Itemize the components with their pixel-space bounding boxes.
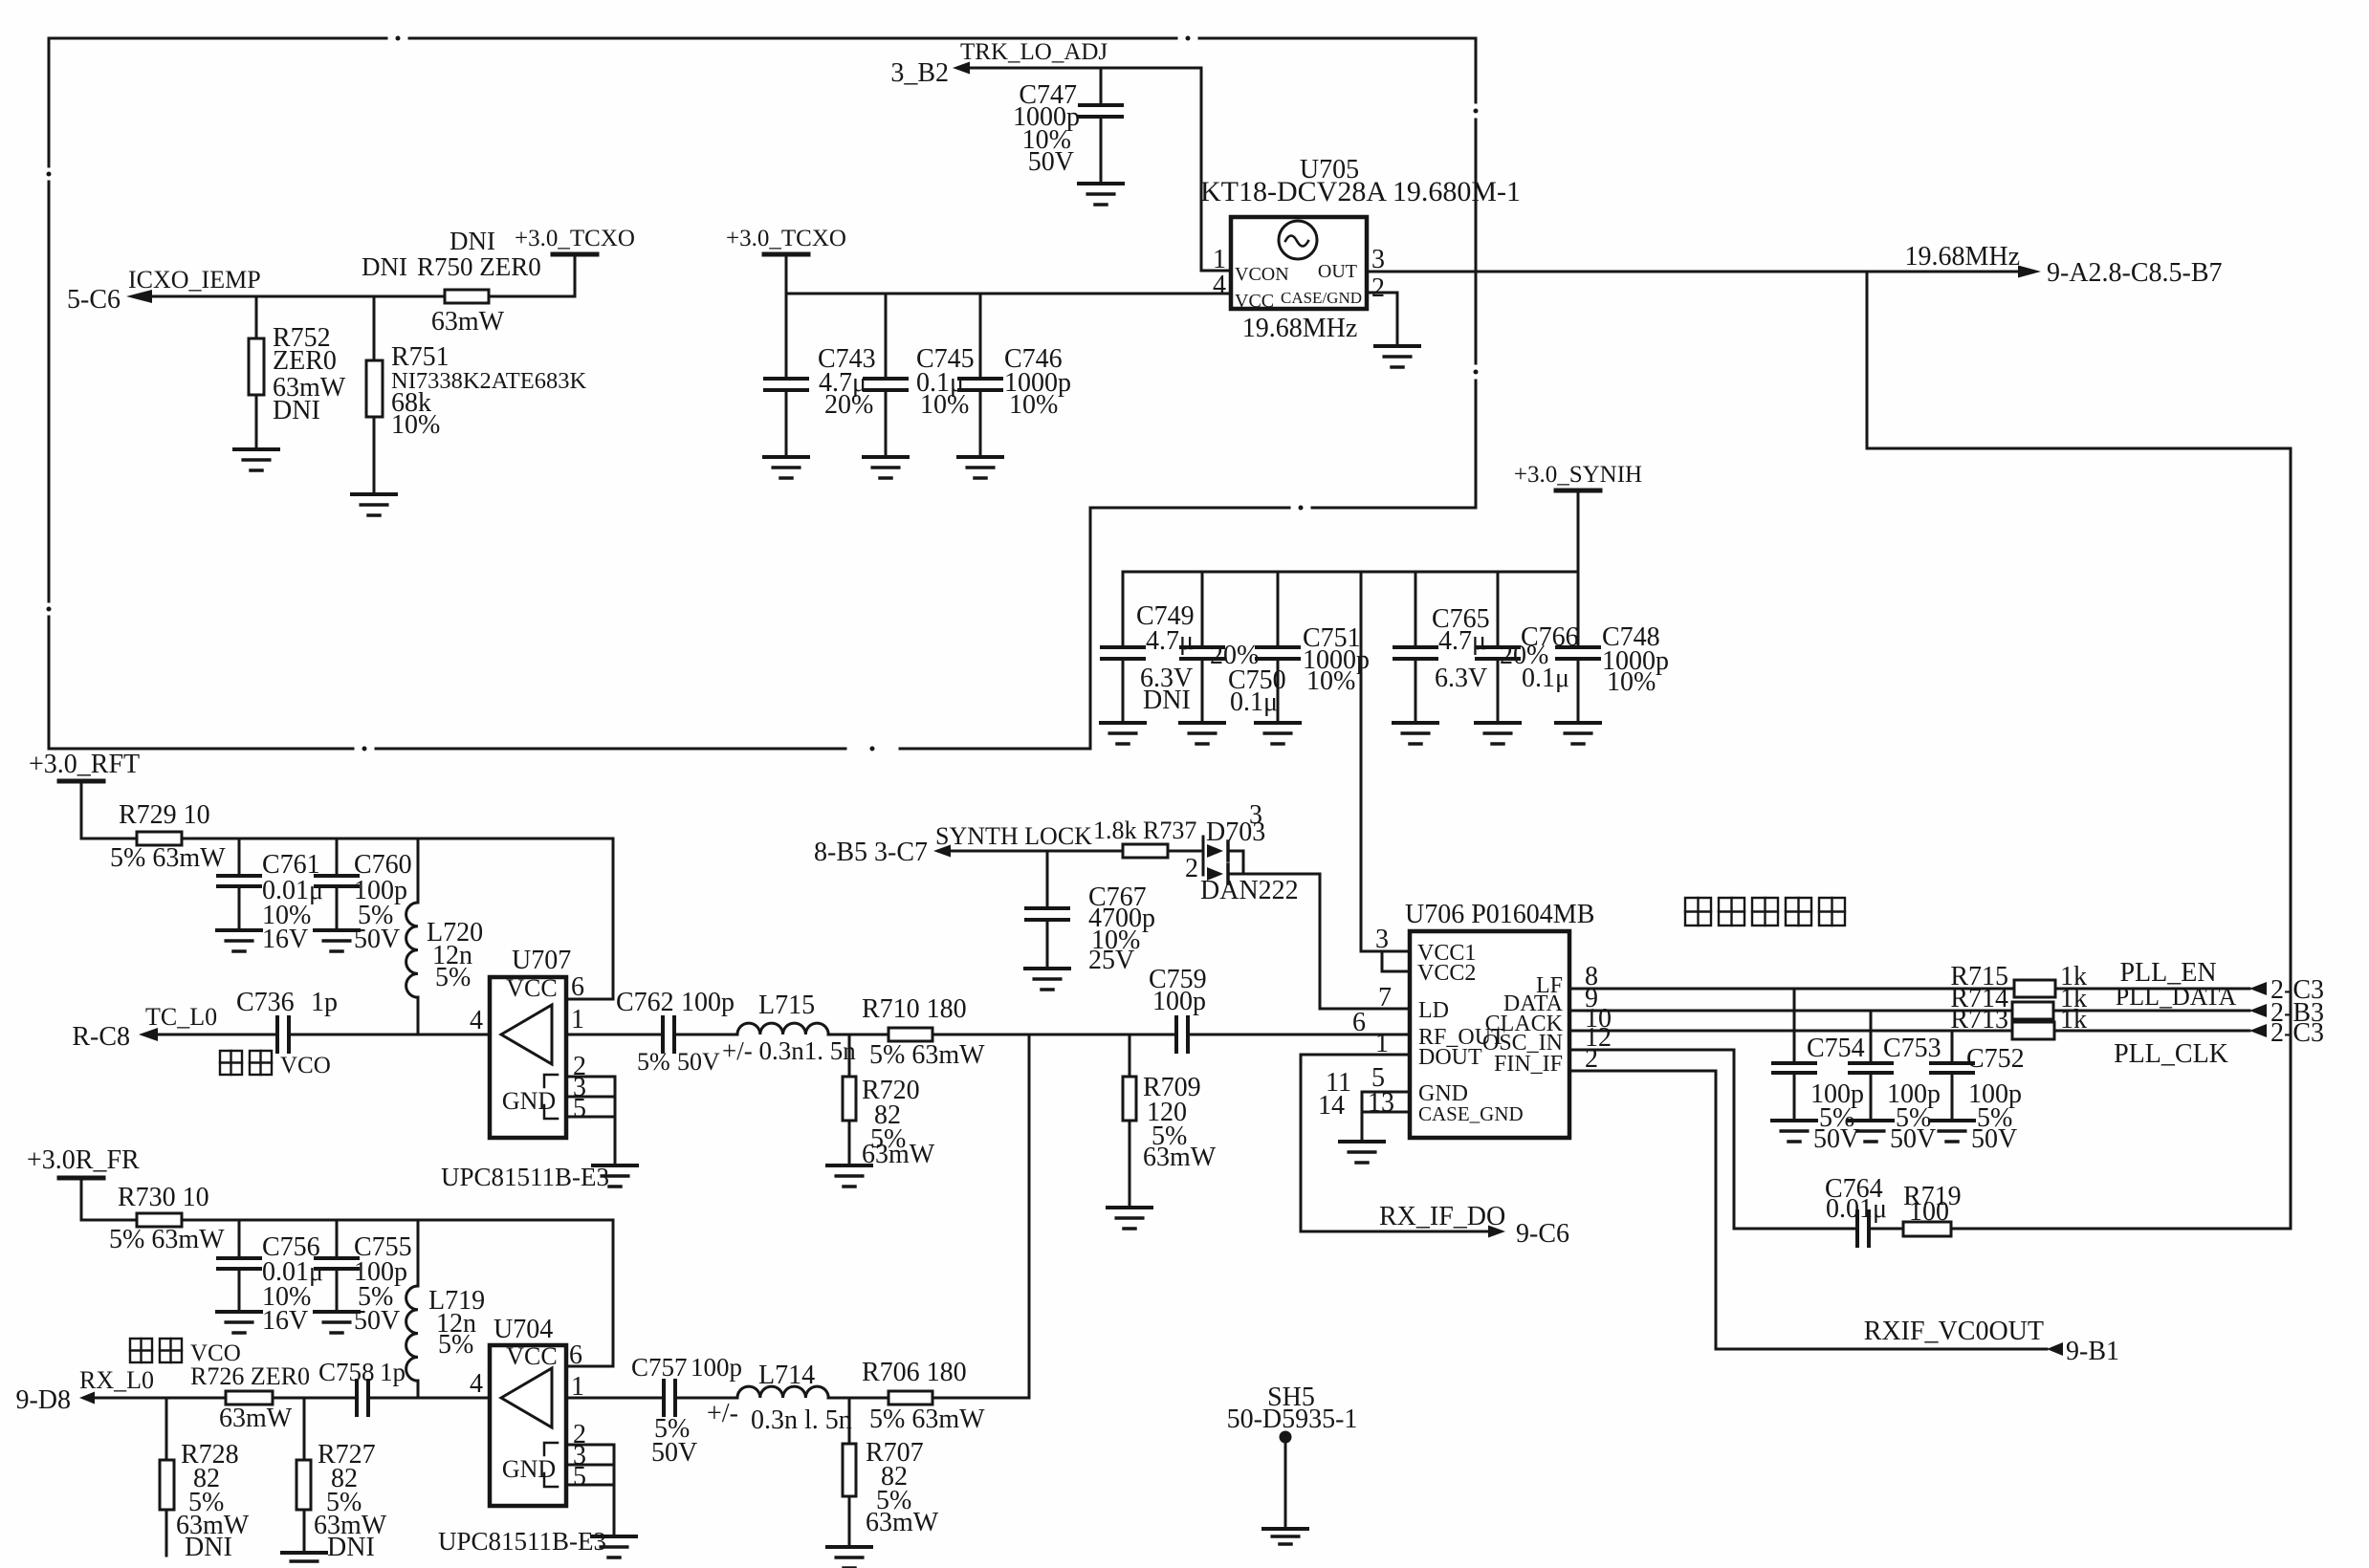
svg-text:C736: C736 xyxy=(236,988,295,1017)
wire DATA/PLL_DATA xyxy=(1569,1010,2249,1013)
label RX VCO (Chinese) xyxy=(130,1339,241,1366)
pin 5 (U706 GND) xyxy=(1326,1063,1410,1098)
capacitor C755 xyxy=(316,1220,412,1336)
svg-text:+3.0_TCXO: +3.0_TCXO xyxy=(515,226,635,251)
svg-text:GND: GND xyxy=(502,1455,556,1483)
label PLL_CLK xyxy=(2114,1039,2228,1069)
pin 2 (U704) xyxy=(566,1420,614,1449)
svg-text:R729 10: R729 10 xyxy=(119,800,210,830)
svg-text:0.3n l. 5n: 0.3n l. 5n xyxy=(751,1405,852,1435)
capacitor C747 xyxy=(1013,68,1122,184)
svg-text:C752: C752 xyxy=(1966,1044,2025,1074)
pin 2 (U707) xyxy=(566,1052,615,1081)
pin 4 (U704) xyxy=(470,1369,483,1399)
wire 19.68MHz output xyxy=(1367,266,2291,1230)
label ICXO_IEMP xyxy=(128,266,261,294)
pin 2 (U705 CASE/GND) xyxy=(1367,273,1397,346)
inductor L719 xyxy=(406,1220,486,1398)
pin 4 (U705 VCC) xyxy=(1213,271,1226,300)
resistor R714 xyxy=(1950,984,2087,1019)
resistor R750 xyxy=(362,227,541,337)
svg-text:2: 2 xyxy=(1371,273,1385,303)
svg-text:63mW: 63mW xyxy=(1143,1143,1217,1172)
svg-text:63mW: 63mW xyxy=(431,307,505,337)
resistor R730 xyxy=(109,1183,225,1254)
ground (R752) xyxy=(234,449,278,470)
svg-text:50V: 50V xyxy=(1813,1124,1859,1154)
label RX_L0 xyxy=(79,1366,154,1394)
capacitor C751 xyxy=(1257,572,1370,723)
svg-text:VCO: VCO xyxy=(280,1053,331,1078)
svg-text:5%: 5% xyxy=(438,1330,473,1360)
svg-text:10%: 10% xyxy=(391,410,440,440)
capacitor C767 xyxy=(1026,851,1155,975)
pin 2 (U706 FIN_IF) xyxy=(1585,1044,1598,1074)
svg-text:50-D5935-1: 50-D5935-1 xyxy=(1227,1405,1358,1434)
svg-text:DNI: DNI xyxy=(185,1533,232,1562)
wire CLACK/PLL_CLK xyxy=(1569,1030,2249,1033)
svg-text:5%: 5% xyxy=(435,963,471,992)
svg-text:R726 ZER0: R726 ZER0 xyxy=(190,1362,310,1390)
svg-text:CASE_GND: CASE_GND xyxy=(1418,1102,1524,1125)
label PLL_EN xyxy=(2119,958,2216,988)
pin 8 (U706 LF) xyxy=(1585,962,1598,991)
svg-text:RXIF_VC0OUT: RXIF_VC0OUT xyxy=(1864,1317,2044,1346)
svg-text:10%: 10% xyxy=(1306,666,1355,696)
svg-text:DNI: DNI xyxy=(1143,686,1191,715)
wire VCC feed to U706 pin3 xyxy=(1360,572,1363,951)
svg-text:3: 3 xyxy=(1371,245,1385,274)
label 5-C6 xyxy=(67,285,121,315)
label TC_L0 xyxy=(145,1003,217,1031)
svg-text:UPC81511B-E3: UPC81511B-E3 xyxy=(441,1163,609,1191)
svg-text:DOUT: DOUT xyxy=(1418,1045,1482,1070)
svg-text:DNI: DNI xyxy=(362,252,407,281)
svg-text:1k: 1k xyxy=(2060,1005,2087,1034)
svg-text:C753: C753 xyxy=(1883,1034,1941,1063)
ground (C755) xyxy=(315,1312,359,1333)
svg-text:DNI: DNI xyxy=(327,1533,375,1562)
resistor R715 xyxy=(1950,962,2087,997)
svg-text:R710 180: R710 180 xyxy=(862,994,967,1024)
wire SYNTH_LOCK xyxy=(933,845,1203,858)
svg-text:VCC: VCC xyxy=(1235,291,1274,312)
svg-text:100p: 100p xyxy=(1152,987,1206,1016)
svg-text:5: 5 xyxy=(573,1462,586,1492)
svg-text:9-C6: 9-C6 xyxy=(1516,1219,1569,1249)
svg-text:100p: 100p xyxy=(691,1353,742,1382)
svg-text:10%: 10% xyxy=(1009,390,1058,420)
svg-text:1p: 1p xyxy=(311,988,338,1017)
capacitor C757 xyxy=(631,1353,742,1468)
label TRK_LO_ADJ xyxy=(960,39,1108,65)
svg-text:10%: 10% xyxy=(1607,667,1656,697)
capacitor C766 xyxy=(1477,572,1579,723)
svg-text:19.68MHz: 19.68MHz xyxy=(1242,314,1358,343)
svg-text:TRK_LO_ADJ: TRK_LO_ADJ xyxy=(960,39,1108,65)
svg-text:1: 1 xyxy=(571,1372,584,1402)
svg-text:50V: 50V xyxy=(354,925,400,954)
svg-text:4: 4 xyxy=(470,1369,483,1399)
resistor R737 xyxy=(1093,817,1196,858)
pin 3 (U707) xyxy=(566,1073,615,1102)
svg-text:VCC: VCC xyxy=(506,1342,557,1370)
svg-text:C757: C757 xyxy=(631,1353,688,1382)
ground (C743) xyxy=(764,457,808,478)
svg-text:3_B2: 3_B2 xyxy=(890,58,949,88)
pin 6 (U704) xyxy=(566,1340,613,1370)
pin 9 (U706 DATA) xyxy=(1585,984,1598,1013)
inductor L714 xyxy=(707,1361,852,1435)
wire RX rail xyxy=(828,1397,1029,1400)
inductor L715 xyxy=(722,991,856,1065)
svg-text:RX_IF_DO: RX_IF_DO xyxy=(1379,1202,1505,1231)
svg-text:10%: 10% xyxy=(920,390,969,420)
label 19.68MHz xyxy=(1904,242,2020,272)
resistor R728 xyxy=(160,1398,250,1562)
svg-text:ZER0: ZER0 xyxy=(273,346,337,376)
wire TX-RX tie xyxy=(1028,1034,1031,1398)
svg-text:+/-: +/- xyxy=(707,1399,738,1428)
op-amp U707 xyxy=(441,946,609,1191)
pin 12 (U706 OSC_IN) xyxy=(1585,1023,1612,1053)
svg-text:63mW: 63mW xyxy=(219,1404,293,1433)
node SH5 xyxy=(1227,1383,1358,1529)
capacitor C756 xyxy=(218,1220,323,1336)
ground (C750) xyxy=(1180,723,1224,744)
ground (R751) xyxy=(352,494,396,515)
ground (U707) xyxy=(593,1165,637,1187)
svg-text:100p: 100p xyxy=(681,988,735,1017)
inductor L720 xyxy=(406,838,484,1034)
label 3_B2 xyxy=(890,58,949,88)
power +3.0R_FR xyxy=(27,1145,140,1220)
svg-text:OUT: OUT xyxy=(1318,261,1357,282)
svg-text:R706 180: R706 180 xyxy=(862,1358,967,1387)
label RX_IF_DO xyxy=(1379,1202,1505,1231)
wire U707 gnd bus xyxy=(614,1077,617,1165)
svg-text:5% 63mW: 5% 63mW xyxy=(869,1405,985,1434)
label 9-A2.8-C8.5-B7 xyxy=(2047,258,2223,288)
svg-text:13: 13 xyxy=(1368,1088,1394,1118)
node ICXO_IEMP wire to 5-C6 xyxy=(126,254,575,303)
svg-text:5-C6: 5-C6 xyxy=(67,285,121,315)
ground (C752) xyxy=(1930,1121,1974,1142)
wire DOUT to RX_IF_DO xyxy=(1301,1055,1505,1238)
wire FIN_IF to RXIF_VC0OUT xyxy=(1569,1071,2047,1349)
capacitor C761 xyxy=(218,838,323,954)
svg-text:DAN222: DAN222 xyxy=(1200,876,1299,905)
resistor R707 xyxy=(843,1398,939,1547)
label TX VCO (Chinese) xyxy=(220,1051,331,1078)
svg-text:1p: 1p xyxy=(380,1358,406,1386)
ground (C761) xyxy=(217,930,261,951)
svg-text:TC_L0: TC_L0 xyxy=(145,1003,217,1031)
svg-text:50V: 50V xyxy=(354,1306,400,1336)
diode D703 (DAN222) xyxy=(1185,800,1320,905)
svg-text:GND: GND xyxy=(502,1087,556,1115)
ground (C753) xyxy=(1849,1121,1893,1142)
pin 6 (U707) xyxy=(566,972,613,1002)
svg-text:4: 4 xyxy=(1213,271,1226,300)
svg-text:4.7μ: 4.7μ xyxy=(1146,626,1194,656)
wire TX rail xyxy=(828,1034,1410,1036)
pin 3 (U706 VCC1/VCC2) xyxy=(1361,925,1410,971)
svg-text:VCC: VCC xyxy=(506,974,557,1002)
svg-text:9-A2.8-C8.5-B7: 9-A2.8-C8.5-B7 xyxy=(2047,258,2223,288)
label 9-C6 xyxy=(1516,1219,1569,1249)
capacitor C749 xyxy=(1102,572,1259,723)
label SYNTH_LOCK xyxy=(935,822,1092,850)
capacitor C750 xyxy=(1181,572,1286,723)
node PLL_EN to 2-C3 xyxy=(2249,975,2324,1005)
svg-text:19.68MHz: 19.68MHz xyxy=(1904,242,2020,272)
ground (R727) xyxy=(282,1553,326,1568)
capacitor C736 xyxy=(236,988,338,1052)
ground (SH5) xyxy=(1263,1529,1307,1544)
svg-text:1: 1 xyxy=(571,1005,584,1034)
ground (C754) xyxy=(1772,1121,1816,1142)
ground (R709) xyxy=(1108,1208,1152,1229)
svg-text:6: 6 xyxy=(1352,1008,1366,1037)
ground (U705 pin2) xyxy=(1375,346,1419,367)
svg-text:0.1μ: 0.1μ xyxy=(1230,687,1278,717)
svg-text:6: 6 xyxy=(571,972,584,1002)
svg-text:ICXO_IEMP: ICXO_IEMP xyxy=(128,266,261,294)
power +3.0_TCXO (right) xyxy=(726,226,846,294)
wire TC_L0 output xyxy=(139,1028,490,1041)
capacitor C759 xyxy=(1149,965,1207,1052)
svg-text:100: 100 xyxy=(1909,1197,1949,1227)
resistor R710 xyxy=(862,994,985,1070)
capacitor C765 xyxy=(1394,572,1548,723)
capacitor C758 xyxy=(318,1358,406,1415)
label PLL_DATA xyxy=(2116,983,2237,1011)
svg-text:50V: 50V xyxy=(1890,1124,1936,1154)
svg-text:LD: LD xyxy=(1418,998,1449,1023)
capacitor C760 xyxy=(316,838,412,954)
svg-text:16V: 16V xyxy=(262,1306,308,1336)
pin 4 (U707) xyxy=(470,1006,483,1035)
svg-text:5% 63mW: 5% 63mW xyxy=(109,1225,225,1254)
pin 6 (U706 RF_OUT) xyxy=(1352,1008,1366,1037)
ground (C756) xyxy=(217,1312,261,1333)
node PLL_DATA to 2-B3 xyxy=(2249,998,2324,1028)
page region border (dash-dot chain line) xyxy=(47,36,1479,751)
svg-text:2: 2 xyxy=(1185,854,1198,883)
svg-text:1.8k R737: 1.8k R737 xyxy=(1093,817,1196,844)
svg-text:50V: 50V xyxy=(651,1438,697,1468)
svg-text:50V: 50V xyxy=(1971,1124,2017,1154)
pin 10 (U706 CLACK) xyxy=(1585,1004,1612,1034)
svg-text:2: 2 xyxy=(1585,1044,1598,1074)
svg-text:C758: C758 xyxy=(318,1358,375,1386)
svg-text:5% 63mW: 5% 63mW xyxy=(869,1040,985,1070)
svg-text:+3.0_TCXO: +3.0_TCXO xyxy=(726,226,846,251)
wire TCXO rail xyxy=(786,293,1231,295)
svg-text:25V: 25V xyxy=(1088,946,1134,975)
svg-text:6: 6 xyxy=(569,1340,582,1370)
svg-text:50V: 50V xyxy=(1028,147,1074,177)
svg-text:KT18-DCV28A 19.680M-1: KT18-DCV28A 19.680M-1 xyxy=(1200,176,1521,207)
ground (C748) xyxy=(1556,723,1600,744)
resistor R706 xyxy=(862,1358,985,1434)
resistor R709 xyxy=(1123,1034,1217,1208)
svg-text:5%: 5% xyxy=(637,1048,670,1076)
op-amp U706 P01604MB PLL box xyxy=(1405,900,1594,1138)
pin 5 (U707) xyxy=(566,1094,615,1123)
resistor R720 xyxy=(843,1034,935,1169)
pin 13 (U706 CASE_GND) xyxy=(1318,1088,1410,1142)
svg-text:VCC2: VCC2 xyxy=(1417,961,1476,986)
svg-text:C762: C762 xyxy=(616,988,674,1017)
ground (C751) xyxy=(1256,723,1300,744)
pin 5 (U704) xyxy=(566,1462,614,1492)
svg-text:63mW: 63mW xyxy=(866,1508,939,1537)
svg-text:50V: 50V xyxy=(677,1048,720,1076)
resistor R727 xyxy=(296,1398,387,1562)
pin 1 (U707) xyxy=(566,1005,663,1034)
svg-text:CASE/GND: CASE/GND xyxy=(1281,289,1362,307)
svg-text:UPC81511B-E3: UPC81511B-E3 xyxy=(438,1527,606,1556)
wire D703 to U706 LD xyxy=(1320,874,1410,1009)
resistor R719 xyxy=(1903,1182,2291,1236)
power +3.0_RFT xyxy=(29,750,140,838)
label R-C8 xyxy=(72,1022,130,1052)
capacitor C754 xyxy=(1773,989,1865,1154)
svg-text:R713: R713 xyxy=(1950,1005,2008,1034)
svg-text:R730 10: R730 10 xyxy=(118,1183,209,1212)
svg-text:9-B1: 9-B1 xyxy=(2066,1337,2119,1366)
op-amp U704 xyxy=(438,1315,606,1556)
ground (R720) xyxy=(827,1165,871,1187)
capacitor C753 xyxy=(1850,1011,1941,1154)
svg-text:5% 63mW: 5% 63mW xyxy=(110,843,226,873)
label PLL module (Chinese) xyxy=(1685,898,1845,926)
wire LF/PLL_EN xyxy=(1569,988,2249,991)
resistor R726 xyxy=(190,1362,310,1433)
pin 3 (U704) xyxy=(566,1441,614,1470)
svg-text:4.7μ: 4.7μ xyxy=(1438,626,1486,656)
svg-text:5: 5 xyxy=(573,1094,586,1123)
svg-text:C754: C754 xyxy=(1807,1034,1865,1063)
resistor R751 xyxy=(366,296,586,494)
svg-text:+3.0_RFT: +3.0_RFT xyxy=(29,750,140,779)
label 8-B5 3-C7 xyxy=(814,838,928,867)
node PLL_CLK to 2-C3 xyxy=(2249,1018,2324,1048)
ground (C766) xyxy=(1476,723,1520,744)
pin 1 (U704) xyxy=(566,1372,664,1402)
svg-text:9-D8: 9-D8 xyxy=(15,1385,71,1415)
label 9-D8 xyxy=(15,1385,71,1415)
svg-text:0.01μ: 0.01μ xyxy=(1826,1194,1887,1224)
pin 7 (U706 LD) xyxy=(1378,983,1392,1013)
power +3.0_SYNIH xyxy=(1514,462,1642,572)
svg-text:2-C3: 2-C3 xyxy=(2270,1018,2324,1048)
capacitor C743 xyxy=(765,294,876,457)
node TRK_LO_ADJ wire xyxy=(953,62,1201,272)
svg-text:SYNTH LOCK: SYNTH LOCK xyxy=(935,822,1092,850)
ground (C760) xyxy=(315,930,359,951)
ground (U706) xyxy=(1340,1142,1384,1163)
wire SYNIH bus xyxy=(1123,571,1578,574)
pin 3 (U705 OUT) xyxy=(1371,245,1385,274)
svg-text:U707: U707 xyxy=(512,946,571,975)
svg-text:L715: L715 xyxy=(758,991,815,1020)
svg-text:FIN_IF: FIN_IF xyxy=(1494,1052,1563,1077)
wire RFT rail xyxy=(81,838,613,999)
resistor R713 xyxy=(1950,1005,2087,1039)
svg-text:PLL_CLK: PLL_CLK xyxy=(2114,1039,2228,1069)
resistor R752 xyxy=(249,296,346,449)
svg-text:L714: L714 xyxy=(758,1361,815,1390)
svg-text:PLL_DATA: PLL_DATA xyxy=(2116,983,2237,1011)
svg-text:4: 4 xyxy=(470,1006,483,1035)
ground (C765) xyxy=(1393,723,1437,744)
svg-text:R750 ZER0: R750 ZER0 xyxy=(417,252,541,281)
svg-text:DNI: DNI xyxy=(273,396,320,425)
ground (C767) xyxy=(1025,969,1069,990)
ground (C745) xyxy=(864,457,908,478)
svg-text:DNI: DNI xyxy=(450,227,495,255)
ground (C747) xyxy=(1079,184,1123,205)
wire RX_L0 output xyxy=(79,1392,490,1405)
svg-text:U706 P01604MB: U706 P01604MB xyxy=(1405,900,1594,929)
svg-text:RX_L0: RX_L0 xyxy=(79,1366,154,1394)
pin 1 (U706 DOUT) xyxy=(1375,1029,1389,1058)
ground (R707) xyxy=(827,1547,871,1568)
ground (C749) xyxy=(1101,723,1145,744)
svg-text:+/- 0.3n1. 5n: +/- 0.3n1. 5n xyxy=(722,1036,856,1065)
capacitor C752 xyxy=(1931,1031,2025,1154)
capacitor C748 xyxy=(1557,572,1669,723)
node RXIF_VC0OUT to 9-B1 xyxy=(1864,1317,2119,1366)
ground (C746) xyxy=(958,457,1002,478)
svg-text:7: 7 xyxy=(1378,983,1392,1013)
svg-text:8-B5 3-C7: 8-B5 3-C7 xyxy=(814,838,928,867)
capacitor C762 xyxy=(616,988,737,1076)
svg-text:U704: U704 xyxy=(494,1315,553,1344)
svg-text:3: 3 xyxy=(1249,800,1262,830)
svg-text:14: 14 xyxy=(1318,1091,1345,1121)
capacitor C745 xyxy=(865,294,975,457)
wire U704 gnd bus xyxy=(613,1445,616,1536)
svg-text:VCON: VCON xyxy=(1235,264,1289,285)
svg-text:R-C8: R-C8 xyxy=(72,1022,130,1052)
op-amp U705 KT18-DCV28A oscillator box xyxy=(1200,155,1521,343)
svg-text:20%: 20% xyxy=(824,390,873,420)
resistor R729 xyxy=(110,800,226,873)
svg-text:0.1μ: 0.1μ xyxy=(1522,664,1569,693)
svg-text:+3.0_SYNIH: +3.0_SYNIH xyxy=(1514,462,1642,488)
svg-text:16V: 16V xyxy=(262,925,308,954)
capacitor C746 xyxy=(959,294,1071,457)
wire OSC_IN from 19.68MHz xyxy=(1569,1050,1857,1229)
capacitor C764 xyxy=(1734,1174,1903,1246)
svg-text:6.3V: 6.3V xyxy=(1435,664,1487,693)
ground (U704) xyxy=(592,1536,636,1557)
svg-text:3: 3 xyxy=(1375,925,1389,954)
wire RFR rail xyxy=(81,1220,613,1366)
pin 1 (U705 VCON) xyxy=(1201,245,1231,274)
svg-text:+3.0R_FR: +3.0R_FR xyxy=(27,1145,140,1175)
power +3.0_TCXO (left) xyxy=(515,226,635,296)
